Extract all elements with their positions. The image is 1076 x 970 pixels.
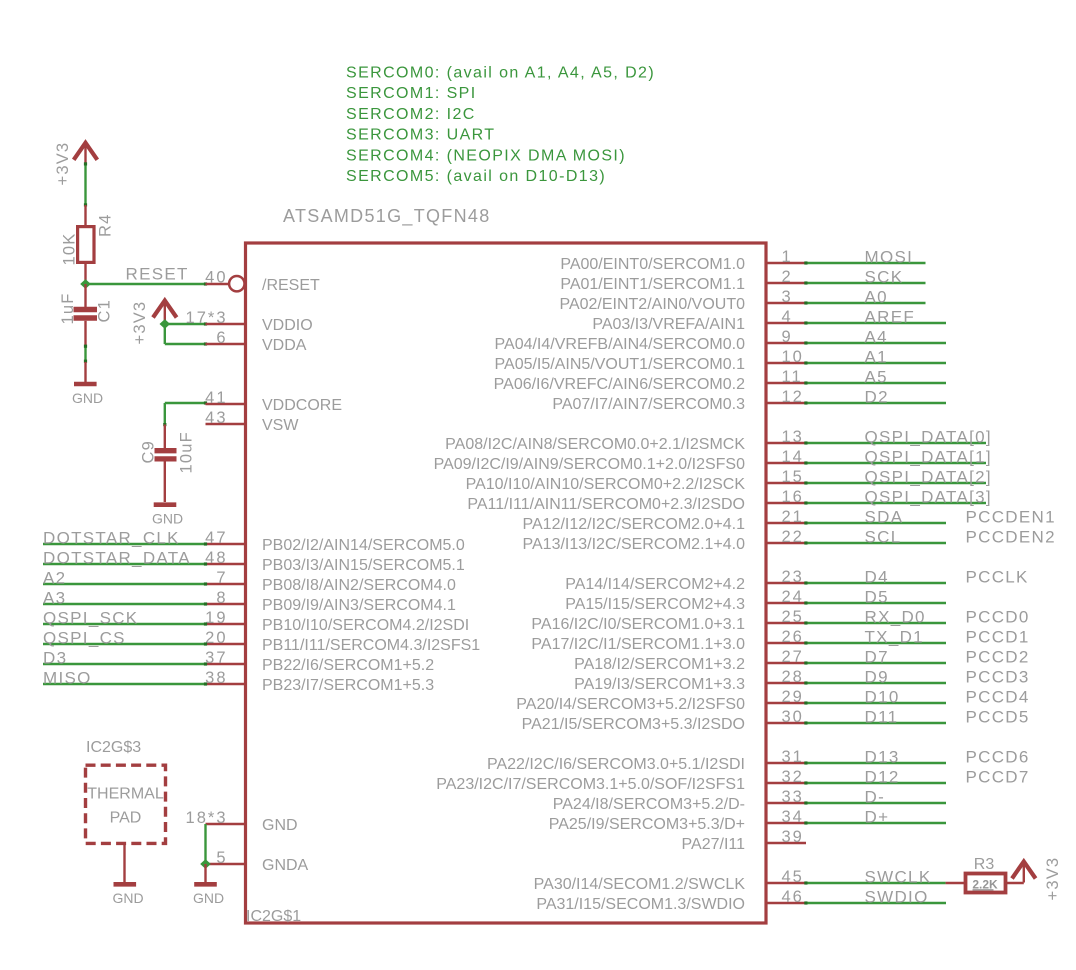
net D3 wire (43, 662, 207, 665)
label C1 value 1uF (59, 292, 77, 324)
svg-text:PCCD2: PCCD2 (966, 648, 1030, 667)
net QSPI_SCK wire (43, 622, 207, 625)
label net A2 (43, 569, 66, 588)
svg-text:11: 11 (782, 368, 803, 386)
svg-text:PB08/I8/AIN2/SERCOM4.0: PB08/I8/AIN2/SERCOM4.0 (262, 577, 456, 594)
label net D3 (43, 649, 67, 668)
net D+ wire (804, 821, 946, 824)
svg-text:SERCOM5: (avail on D10-D13): SERCOM5: (avail on D10-D13) (346, 168, 606, 185)
svg-text:D9: D9 (865, 668, 889, 687)
svg-text:SERCOM2: I2C: SERCOM2: I2C (346, 106, 476, 123)
svg-text:PA13/I13/I2C/SERCOM2.1+4.0: PA13/I13/I2C/SERCOM2.1+4.0 (523, 536, 746, 553)
label R4 name (97, 214, 115, 238)
svg-text:7: 7 (216, 569, 227, 587)
net AREF wire (804, 321, 946, 324)
svg-text:PA30/I14/SECOM1.2/SWCLK: PA30/I14/SECOM1.2/SWCLK (534, 876, 746, 893)
pin 17*3 VDDIO stub (186, 309, 246, 327)
svg-text:PCCDEN1: PCCDEN1 (966, 508, 1056, 527)
pin name PA09/I2C/I9/AIN9/SERCOM0.1+2.0/I2SFS0 (434, 456, 746, 473)
pin name VDDCORE (262, 397, 342, 414)
svg-text:A1: A1 (865, 348, 888, 367)
svg-text:PA11/I11/AIN11/SERCOM0+2.3/I2S: PA11/I11/AIN11/SERCOM0+2.3/I2SDO (467, 496, 745, 513)
label net PCCLK (966, 568, 1029, 587)
svg-text:A3: A3 (43, 589, 66, 608)
wire +3V3 to R4 (84, 162, 87, 206)
pin 47 PB02/I2/AIN14/SERCOM5.0 stub (205, 529, 245, 547)
ground GND symbol under thermal pad (112, 844, 143, 907)
svg-text:PA15/I15/SERCOM2+4.3: PA15/I15/SERCOM2+4.3 (565, 596, 745, 613)
net QSPI_DATA[2] wire (804, 481, 986, 484)
svg-text:RX_D0: RX_D0 (865, 608, 926, 627)
svg-text:17*3: 17*3 (186, 309, 228, 327)
power +3V3 symbol (top left) (54, 142, 97, 186)
label net A5 (865, 368, 888, 387)
svg-text:VSW: VSW (262, 417, 299, 434)
net D13 wire (804, 761, 946, 764)
net QSPI_DATA[0] wire (804, 441, 986, 444)
svg-text:PB09/I9/AIN3/SERCOM4.1: PB09/I9/AIN3/SERCOM4.1 (262, 597, 456, 614)
svg-text:PA01/EINT1/SERCOM1.1: PA01/EINT1/SERCOM1.1 (560, 276, 745, 293)
svg-text:PA12/I12/I2C/SERCOM2.0+4.1: PA12/I12/I2C/SERCOM2.0+4.1 (523, 516, 746, 533)
pin 2 PA01/EINT1/SERCOM1.1 stub (766, 268, 806, 286)
net A1 wire (804, 361, 946, 364)
svg-text:PCCD0: PCCD0 (966, 608, 1030, 627)
pin name PA02/EINT2/AIN0/VOUT0 (559, 296, 745, 313)
pin name PA15/I15/SERCOM2+4.3 (565, 596, 745, 613)
svg-text:43: 43 (205, 409, 227, 427)
pin 16 PA11/I11/AIN11/SERCOM0+2.3/I2SDO stub (766, 488, 806, 506)
label net D4 (865, 568, 889, 587)
svg-text:GND: GND (193, 890, 224, 906)
pin 20 PB11/I11/SERCOM4.3/I2SFS1 stub (205, 629, 245, 647)
svg-text:D3: D3 (43, 649, 67, 668)
net SWDIO wire (804, 901, 946, 904)
label net D12 (865, 768, 900, 787)
svg-text:R3: R3 (974, 856, 995, 873)
pin name PA20/I4/SERCOM3+5.2/I2SFS0 (516, 696, 745, 713)
svg-text:C1: C1 (96, 299, 114, 323)
svg-text:MOSI: MOSI (865, 248, 914, 267)
net DOTSTAR_DATA wire (43, 562, 207, 565)
pin name VSW (262, 417, 299, 434)
pin 14 PA09/I2C/I9/AIN9/SERCOM0.1+2.0/I2SFS0 stub (766, 448, 806, 466)
svg-text:PAD: PAD (110, 810, 142, 827)
label net A0 (865, 288, 888, 307)
label net SWDIO (865, 888, 929, 907)
svg-text:48: 48 (205, 549, 227, 567)
svg-text:SERCOM0: (avail on A1, A4, A5,: SERCOM0: (avail on A1, A4, A5, D2) (346, 65, 655, 82)
svg-text:PB10/I10/SERCOM4.2/I2SDI: PB10/I10/SERCOM4.2/I2SDI (262, 617, 469, 634)
pin 7 PB08/I8/AIN2/SERCOM4.0 stub (206, 569, 246, 587)
label IC2G$3 gate name (86, 739, 141, 756)
net SCL wire (804, 541, 946, 544)
net QSPI_DATA[1] wire (804, 461, 986, 464)
pin 9 PA04/I4/VREFB/AIN4/SERCOM0.0 stub (766, 328, 806, 346)
capacitor C1 1uF (74, 284, 98, 346)
svg-text:PCCD5: PCCD5 (966, 708, 1030, 727)
net A5 wire (804, 381, 946, 384)
pin name PA18/I2/SERCOM1+3.2 (574, 656, 745, 673)
svg-text:PCCD7: PCCD7 (966, 768, 1030, 787)
svg-text:ATSAMD51G_TQFN48: ATSAMD51G_TQFN48 (283, 206, 491, 227)
net D12 wire (804, 781, 946, 784)
svg-text:AREF: AREF (865, 308, 916, 327)
svg-text:PA16/I2C/I0/SERCOM1.0+3.1: PA16/I2C/I0/SERCOM1.0+3.1 (531, 616, 745, 633)
svg-text:PA17/I2C/I1/SERCOM1.1+3.0: PA17/I2C/I1/SERCOM1.1+3.0 (531, 636, 745, 653)
svg-text:PA07/I7/AIN7/SERCOM0.3: PA07/I7/AIN7/SERCOM0.3 (552, 396, 745, 413)
pin name PA24/I8/SERCOM3+5.2/D- (553, 796, 745, 813)
label net PCCD7 (966, 768, 1030, 787)
svg-text:45: 45 (782, 868, 804, 886)
label R4 value 10K (61, 233, 79, 266)
svg-text:SCK: SCK (865, 268, 904, 287)
label net D11 (865, 708, 899, 727)
net QSPI_DATA[3] wire (804, 501, 986, 504)
svg-text:D2: D2 (865, 388, 889, 407)
pin 21 PA12/I12/I2C/SERCOM2.0+4.1 stub (766, 508, 806, 526)
wire +3V3 to VDDA (165, 324, 207, 346)
pin name GNDA (262, 857, 309, 874)
svg-text:PB23/I7/SERCOM1+5.3: PB23/I7/SERCOM1+5.3 (262, 677, 434, 694)
pin name PA08/I2C/AIN8/SERCOM0.0+2.1/I2SMCK (445, 436, 745, 453)
svg-text:31: 31 (782, 748, 804, 766)
svg-text:C9: C9 (140, 440, 158, 464)
svg-text:QSPI_DATA[3]: QSPI_DATA[3] (865, 488, 992, 507)
pin 8 PB09/I9/AIN3/SERCOM4.1 stub (206, 589, 246, 607)
net SWCLK wire (804, 881, 945, 884)
label net PCCD5 (966, 708, 1030, 727)
label net RX_D0 (865, 608, 926, 627)
pin name PB09/I9/AIN3/SERCOM4.1 (262, 597, 456, 614)
pin name /RESET (262, 277, 320, 294)
svg-text:PA20/I4/SERCOM3+5.2/I2SFS0: PA20/I4/SERCOM3+5.2/I2SFS0 (516, 696, 745, 713)
pin 10 PA05/I5/AIN5/VOUT1/SERCOM0.1 stub (766, 348, 806, 366)
net D4 wire (804, 581, 946, 584)
svg-text:PA03/I3/VREFA/AIN1: PA03/I3/VREFA/AIN1 (592, 316, 745, 333)
svg-text:RESET: RESET (126, 265, 189, 284)
pin 48 PB03/I3/AIN15/SERCOM5.1 stub (205, 549, 245, 567)
label net PCCDEN2 (966, 528, 1056, 547)
label net A3 (43, 589, 66, 608)
label net PCCD6 (966, 748, 1030, 767)
wire VDDCORE to C9 (163, 401, 207, 426)
svg-text:A0: A0 (865, 288, 888, 307)
resistor R3 2.2K (946, 874, 1024, 893)
pin 12 PA07/I7/AIN7/SERCOM0.3 stub (766, 388, 806, 406)
svg-text:GND: GND (112, 890, 143, 906)
pin 3 PA02/EINT2/AIN0/VOUT0 stub (766, 288, 806, 306)
label net D13 (865, 748, 900, 767)
pin name PA22/I2C/I6/SERCOM3.0+5.1/I2SDI (487, 756, 745, 773)
svg-text:15: 15 (782, 468, 804, 486)
pin 32 PA23/I2C/I7/SERCOM3.1+5.0/SOF/I2SFS1 stub (766, 768, 806, 786)
svg-text:37: 37 (205, 649, 227, 667)
pin 31 PA22/I2C/I6/SERCOM3.0+5.1/I2SDI stub (766, 748, 806, 766)
svg-text:D7: D7 (865, 648, 889, 667)
label R3 value 2.2K (972, 877, 998, 891)
svg-text:9: 9 (782, 328, 793, 346)
svg-text:PA21/I5/SERCOM3+5.3/I2SDO: PA21/I5/SERCOM3+5.3/I2SDO (522, 716, 745, 733)
svg-text:PA25/I9/SERCOM3+5.3/D+: PA25/I9/SERCOM3+5.3/D+ (549, 816, 745, 833)
pin 29 PA20/I4/SERCOM3+5.2/I2SFS0 stub (766, 688, 806, 706)
pin name PB03/I3/AIN15/SERCOM5.1 (262, 557, 465, 574)
svg-text:PCCD4: PCCD4 (966, 688, 1030, 707)
label net PCCD3 (966, 668, 1030, 687)
power +3V3 symbol (R3 pull-up) (1012, 857, 1062, 901)
pin name PA11/I11/AIN11/SERCOM0+2.3/I2SDO (467, 496, 745, 513)
ground GND symbol at GNDA (193, 864, 224, 906)
svg-text:3: 3 (782, 288, 793, 306)
svg-text:VDDIO: VDDIO (262, 317, 313, 334)
pin name PA21/I5/SERCOM3+5.3/I2SDO (522, 716, 745, 733)
svg-text:6: 6 (216, 329, 227, 347)
pin name PA30/I14/SECOM1.2/SWCLK (534, 876, 746, 893)
pin 19 PB10/I10/SERCOM4.2/I2SDI stub (205, 609, 245, 627)
ground GND symbol under C1 (72, 362, 103, 406)
svg-text:VDDCORE: VDDCORE (262, 397, 342, 414)
label net A1 (865, 348, 888, 367)
svg-text:D5: D5 (865, 588, 889, 607)
label net PCCD0 (966, 608, 1030, 627)
label R3 name (974, 856, 995, 873)
svg-text:DOTSTAR_CLK: DOTSTAR_CLK (43, 529, 180, 548)
wire GND pin to GNDA junction (204, 824, 206, 864)
svg-text:D+: D+ (865, 808, 890, 827)
label net SCL (865, 528, 902, 547)
pin name PA23/I2C/I7/SERCOM3.1+5.0/SOF/I2SFS1 (436, 776, 745, 793)
pin 41 VDDCORE stub (205, 389, 245, 407)
pin name PB10/I10/SERCOM4.2/I2SDI (262, 617, 469, 634)
svg-text:25: 25 (782, 608, 804, 626)
svg-text:PCCD3: PCCD3 (966, 668, 1030, 687)
net D9 wire (804, 681, 946, 684)
label net D7 (865, 648, 889, 667)
net MISO wire (43, 682, 207, 685)
svg-text:PA22/I2C/I6/SERCOM3.0+5.1/I2SD: PA22/I2C/I6/SERCOM3.0+5.1/I2SDI (487, 756, 745, 773)
pin 5 GNDA stub (206, 849, 246, 867)
svg-text:23: 23 (782, 568, 804, 586)
svg-text:33: 33 (782, 788, 804, 806)
svg-text:1uF: 1uF (59, 292, 77, 324)
pin 18*3 GND stub (186, 809, 246, 827)
label net PCCD2 (966, 648, 1030, 667)
capacitor C9 10uF (155, 425, 177, 503)
node RESET junction at R4/C1 (80, 279, 91, 289)
svg-text:PA24/I8/SERCOM3+5.2/D-: PA24/I8/SERCOM3+5.2/D- (553, 796, 745, 813)
label net D9 (865, 668, 889, 687)
svg-text:PB02/I2/AIN14/SERCOM5.0: PB02/I2/AIN14/SERCOM5.0 (262, 537, 465, 554)
label net QSPI_CS (43, 629, 126, 648)
net D10 wire (804, 701, 946, 704)
svg-text:4: 4 (782, 308, 793, 326)
pin 11 PA06/I6/VREFC/AIN6/SERCOM0.2 stub (766, 368, 806, 386)
svg-text:QSPI_DATA[1]: QSPI_DATA[1] (865, 448, 992, 467)
svg-text:GND: GND (262, 817, 298, 834)
net QSPI_CS wire (43, 642, 207, 645)
svg-text:47: 47 (205, 529, 227, 547)
svg-text:PCCD1: PCCD1 (966, 628, 1030, 647)
node junction +3V3/VDDIO/VDDA (160, 319, 171, 329)
svg-text:10uF: 10uF (178, 431, 196, 473)
svg-text:32: 32 (782, 768, 804, 786)
ground GND symbol under C9 (152, 505, 183, 527)
label net MISO (43, 669, 92, 688)
pin name PB02/I2/AIN14/SERCOM5.0 (262, 537, 465, 554)
label net SWCLK (865, 868, 932, 887)
label net D5 (865, 588, 889, 607)
svg-text:SWDIO: SWDIO (865, 888, 929, 907)
svg-text:39: 39 (782, 828, 804, 846)
svg-text:PB22/I6/SERCOM1+5.2: PB22/I6/SERCOM1+5.2 (262, 657, 434, 674)
net D11 wire (804, 721, 946, 724)
pin 30 PA21/I5/SERCOM3+5.3/I2SDO stub (766, 708, 806, 726)
svg-text:13: 13 (782, 428, 804, 446)
svg-text:22: 22 (782, 528, 804, 546)
label net QSPI_DATA[1] (865, 448, 992, 467)
svg-text:24: 24 (782, 588, 804, 606)
net SCK wire (804, 281, 925, 284)
svg-text:20: 20 (205, 629, 227, 647)
svg-text:SCL: SCL (865, 528, 902, 547)
label net QSPI_DATA[3] (865, 488, 992, 507)
pin name GND (262, 817, 298, 834)
svg-text:DOTSTAR_DATA: DOTSTAR_DATA (43, 549, 191, 568)
pin name PA31/I15/SECOM1.3/SWDIO (536, 896, 745, 913)
label net D2 (865, 388, 889, 407)
label net D+ (865, 808, 890, 827)
svg-text:PA04/I4/VREFB/AIN4/SERCOM0.0: PA04/I4/VREFB/AIN4/SERCOM0.0 (495, 336, 746, 353)
svg-text:26: 26 (782, 628, 804, 646)
svg-text:19: 19 (205, 609, 227, 627)
pin 40 /RESET stub with inversion bubble (205, 269, 244, 292)
pin 34 PA25/I9/SERCOM3+5.3/D+ stub (766, 808, 806, 826)
pin 24 PA15/I15/SERCOM2+4.3 stub (766, 588, 806, 606)
svg-text:+3V3: +3V3 (1044, 857, 1062, 901)
svg-text:R4: R4 (97, 214, 115, 238)
svg-text:A5: A5 (865, 368, 888, 387)
label net DOTSTAR_CLK (43, 529, 180, 548)
label net PCCDEN1 (966, 508, 1056, 527)
resistor R4 10K (78, 205, 94, 284)
svg-text:VDDA: VDDA (262, 337, 307, 354)
svg-text:SERCOM4: (NEOPIX DMA MOSI): SERCOM4: (NEOPIX DMA MOSI) (346, 147, 626, 164)
label net SDA (865, 508, 904, 527)
pin name PB23/I7/SERCOM1+5.3 (262, 677, 434, 694)
svg-text:PA06/I6/VREFC/AIN6/SERCOM0.2: PA06/I6/VREFC/AIN6/SERCOM0.2 (494, 376, 745, 393)
svg-text:41: 41 (205, 389, 227, 407)
pin 6 VDDA stub (206, 329, 246, 347)
pin 1 PA00/EINT0/SERCOM1.0 stub (766, 248, 806, 266)
pin 46 PA31/I15/SECOM1.3/SWDIO stub (766, 888, 806, 906)
pin name PA25/I9/SERCOM3+5.3/D+ (549, 816, 745, 833)
svg-text:/RESET: /RESET (262, 277, 320, 294)
net A4 wire (804, 341, 946, 344)
pin name PA13/I13/I2C/SERCOM2.1+4.0 (523, 536, 746, 553)
pin 22 PA13/I13/I2C/SERCOM2.1+4.0 stub (766, 528, 806, 546)
pin 13 PA08/I2C/AIN8/SERCOM0.0+2.1/I2SMCK stub (766, 428, 806, 446)
svg-text:PA02/EINT2/AIN0/VOUT0: PA02/EINT2/AIN0/VOUT0 (559, 296, 745, 313)
pin name PA05/I5/AIN5/VOUT1/SERCOM0.1 (495, 356, 746, 373)
label IC2G$1 gate name (246, 908, 301, 925)
svg-text:GND: GND (72, 390, 103, 406)
pin 33 PA24/I8/SERCOM3+5.2/D- stub (766, 788, 806, 806)
pin name VDDA (262, 337, 307, 354)
svg-text:14: 14 (782, 448, 804, 466)
svg-text:IC2G$3: IC2G$3 (86, 739, 141, 756)
pin name PA19/I3/SERCOM1+3.3 (574, 676, 745, 693)
net A3 wire (43, 602, 207, 605)
pin 4 PA03/I3/VREFA/AIN1 stub (766, 308, 806, 326)
pin name PA10/I10/AIN10/SERCOM0+2.2/I2SCK (466, 476, 746, 493)
svg-text:10K: 10K (61, 233, 79, 266)
pin name PA00/EINT0/SERCOM1.0 (560, 256, 745, 273)
svg-text:PCCLK: PCCLK (966, 568, 1029, 587)
label net MOSI (865, 248, 914, 267)
label IC2 part name ATSAMD51G_TQFN48 (283, 206, 491, 227)
svg-text:QSPI_CS: QSPI_CS (43, 629, 126, 648)
svg-text:28: 28 (782, 668, 804, 686)
svg-text:SERCOM1: SPI: SERCOM1: SPI (346, 85, 477, 102)
pin 39 PA27/I11 stub (766, 828, 806, 846)
svg-text:GND: GND (152, 511, 183, 527)
svg-text:GNDA: GNDA (262, 857, 309, 874)
label net D10 (865, 688, 900, 707)
svg-text:SDA: SDA (865, 508, 904, 527)
pin name PA16/I2C/I0/SERCOM1.0+3.1 (531, 616, 745, 633)
pin name PA01/EINT1/SERCOM1.1 (560, 276, 745, 293)
pin name PA06/I6/VREFC/AIN6/SERCOM0.2 (494, 376, 745, 393)
svg-text:1: 1 (782, 248, 793, 266)
net MOSI wire (804, 261, 925, 264)
svg-text:34: 34 (782, 808, 804, 826)
pin 38 PB23/I7/SERCOM1+5.3 stub (205, 669, 245, 687)
svg-text:QSPI_SCK: QSPI_SCK (43, 609, 138, 628)
pin 23 PA14/I14/SERCOM2+4.2 stub (766, 568, 806, 586)
net D- wire (804, 801, 946, 804)
pin name PA07/I7/AIN7/SERCOM0.3 (552, 396, 745, 413)
svg-text:SWCLK: SWCLK (865, 868, 932, 887)
svg-text:12: 12 (782, 388, 804, 406)
label net A4 (865, 328, 888, 347)
svg-text:PA31/I15/SECOM1.3/SWDIO: PA31/I15/SECOM1.3/SWDIO (536, 896, 745, 913)
power +3V3 symbol (VDDIO/VDDA) (131, 301, 177, 345)
net A0 wire (804, 301, 925, 304)
svg-text:QSPI_DATA[0]: QSPI_DATA[0] (865, 428, 992, 447)
pin 15 PA10/I10/AIN10/SERCOM0+2.2/I2SCK stub (766, 468, 806, 486)
pin 43 VSW stub (205, 409, 245, 427)
net RESET wire to /RESET pin (86, 282, 208, 285)
label C9 value 10uF (178, 431, 196, 473)
svg-text:D12: D12 (865, 768, 900, 787)
svg-text:+3V3: +3V3 (54, 142, 72, 186)
svg-text:46: 46 (782, 888, 804, 906)
pin name PA04/I4/VREFB/AIN4/SERCOM0.0 (495, 336, 746, 353)
IC IC2 ATSAMD51G_TQFN48 body (246, 243, 767, 923)
svg-text:THERMAL: THERMAL (87, 786, 164, 803)
label net QSPI_SCK (43, 609, 138, 628)
pin name PB08/I8/AIN2/SERCOM4.0 (262, 577, 456, 594)
svg-text:PA19/I3/SERCOM1+3.3: PA19/I3/SERCOM1+3.3 (574, 676, 745, 693)
svg-text:IC2G$1: IC2G$1 (246, 908, 301, 925)
label THERMAL PAD (87, 786, 164, 827)
label net D- (865, 788, 886, 807)
label net QSPI_DATA[2] (865, 468, 992, 487)
net D7 wire (804, 661, 946, 664)
pin 37 PB22/I6/SERCOM1+5.2 stub (205, 649, 245, 667)
pin 45 PA30/I14/SECOM1.2/SWCLK stub (766, 868, 806, 886)
net RX_D0 wire (804, 621, 946, 624)
svg-text:PCCDEN2: PCCDEN2 (966, 528, 1056, 547)
